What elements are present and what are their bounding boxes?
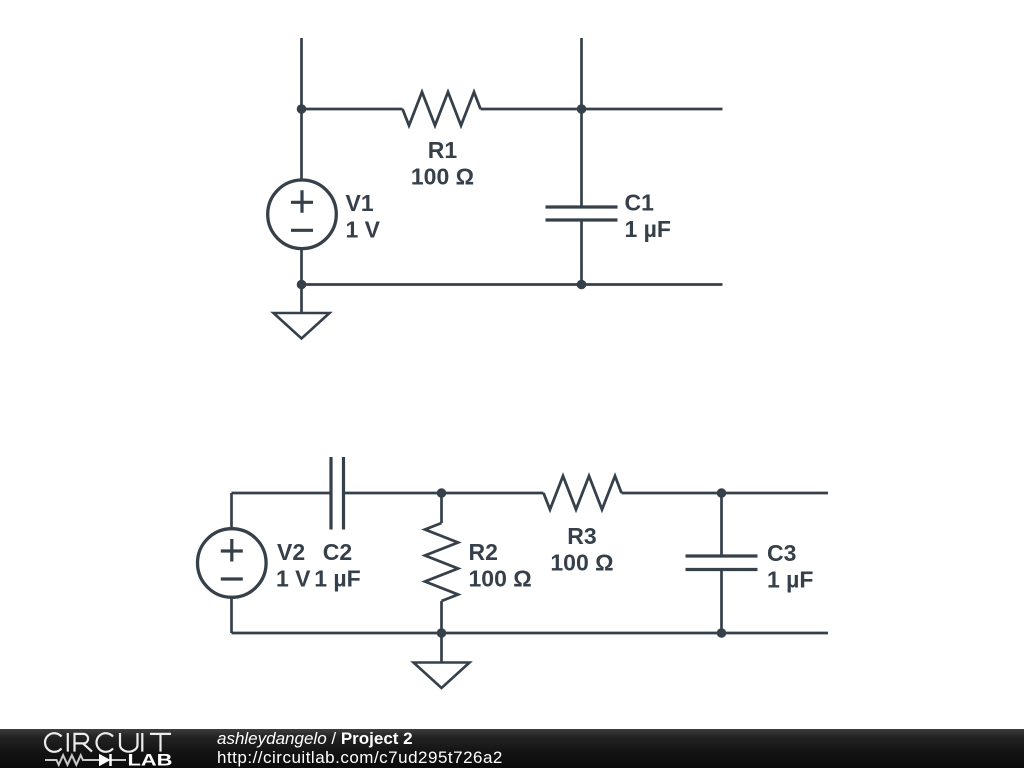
resistor R1 bbox=[403, 92, 481, 126]
junction node: C1 / top rail bbox=[577, 104, 587, 114]
wire: C1 bottom plate to bottom rail bbox=[580, 220, 583, 285]
V1 plus mark bbox=[291, 190, 313, 213]
svg-text:100 Ω: 100 Ω bbox=[411, 164, 474, 190]
wire: V2 bottom pin to bottom rail bbox=[230, 597, 233, 633]
wire: R2 top leg bbox=[440, 493, 443, 523]
capacitor C2 left plate bbox=[329, 457, 332, 530]
footer bar bbox=[0, 729, 1024, 768]
ground symbol (bottom circuit) bbox=[414, 663, 470, 689]
V2 plus mark bbox=[221, 539, 243, 562]
svg-text:C2: C2 bbox=[323, 539, 352, 565]
logo letter C bbox=[97, 733, 113, 752]
capacitor C1 bottom plate bbox=[546, 218, 618, 221]
logo diode cathode bar bbox=[109, 754, 112, 766]
resistor R2 bbox=[425, 523, 458, 601]
V2 minus mark bbox=[221, 577, 243, 580]
wire: top rail, R1 right pin to right end bbox=[481, 108, 723, 111]
wire: C3 top leg bbox=[720, 493, 723, 556]
junction node: R2 / bottom rail / ground bbox=[437, 628, 447, 638]
resistor R3 bbox=[544, 476, 622, 510]
junction node: V1 / bottom rail / ground bbox=[297, 280, 307, 290]
capacitor C2 right plate bbox=[342, 457, 345, 530]
svg-text:1 V: 1 V bbox=[346, 217, 381, 243]
logo letter R bbox=[75, 734, 93, 752]
wire: right vertical stub down to C1 top plate bbox=[580, 38, 583, 207]
junction node: R3 / C3 on top rail bbox=[717, 488, 727, 498]
wire: top rail, R3 right pin to right end bbox=[622, 492, 829, 495]
wire: C3 bottom leg bbox=[720, 570, 723, 634]
wire: V1 bottom pin to ground stub bbox=[300, 248, 303, 313]
junction node: C2 / R2 / R3 on top rail bbox=[437, 488, 447, 498]
svg-text:LAB: LAB bbox=[128, 751, 173, 768]
voltage source V2 body bbox=[198, 529, 267, 598]
wire: V2 top pin to top rail bbox=[230, 493, 233, 529]
svg-text:1 µF: 1 µF bbox=[767, 567, 813, 593]
wire: R2 bottom leg through bottom rail to ground stub bbox=[440, 601, 443, 663]
logo letter C bbox=[45, 733, 61, 752]
wire: bottom rail of bottom circuit bbox=[232, 632, 829, 635]
logo letter I bbox=[141, 733, 143, 752]
junction node: V1 / top rail bbox=[297, 104, 307, 114]
svg-text:R2: R2 bbox=[469, 539, 498, 565]
svg-text:C1: C1 bbox=[625, 190, 655, 216]
junction node: C1 / bottom rail bbox=[577, 280, 587, 290]
CircuitLab logo bbox=[0, 729, 200, 768]
svg-text:100 Ω: 100 Ω bbox=[550, 550, 613, 576]
logo diode triangle bbox=[99, 754, 111, 766]
ground symbol (top circuit) bbox=[274, 313, 330, 339]
V1 minus mark bbox=[291, 229, 313, 232]
svg-text:1 µF: 1 µF bbox=[625, 216, 671, 242]
logo letter U bbox=[120, 733, 138, 752]
voltage source V1 body bbox=[268, 180, 337, 249]
logo letter T bbox=[150, 734, 171, 752]
wire: top rail, V2 to C2 left plate bbox=[232, 492, 332, 495]
svg-text:1 µF: 1 µF bbox=[314, 566, 360, 592]
capacitor C1 top plate bbox=[546, 205, 618, 208]
wire: top rail, C2 right plate through R2 node to R3 left pin bbox=[344, 492, 544, 495]
logo resistor glyph bbox=[45, 755, 99, 765]
logo lead after diode bbox=[111, 759, 127, 761]
svg-text:R1: R1 bbox=[428, 137, 458, 163]
svg-text:100 Ω: 100 Ω bbox=[469, 566, 532, 592]
svg-text:V1: V1 bbox=[346, 190, 374, 216]
svg-text:1 V: 1 V bbox=[276, 566, 311, 592]
capacitor C3 top plate bbox=[686, 554, 758, 557]
capacitor C3 bottom plate bbox=[686, 568, 758, 571]
wire: top rail, V1 node to R1 left pin bbox=[302, 108, 403, 111]
svg-text:V2: V2 bbox=[277, 539, 305, 565]
wire: bottom rail of top circuit bbox=[302, 283, 723, 286]
svg-text:R3: R3 bbox=[567, 523, 596, 549]
svg-text:C3: C3 bbox=[767, 540, 796, 566]
logo letter I bbox=[67, 733, 69, 752]
junction node: C3 / bottom rail bbox=[717, 628, 727, 638]
footer credit text bbox=[217, 729, 503, 767]
wire: left vertical stub down to V1 top pin bbox=[300, 38, 303, 180]
